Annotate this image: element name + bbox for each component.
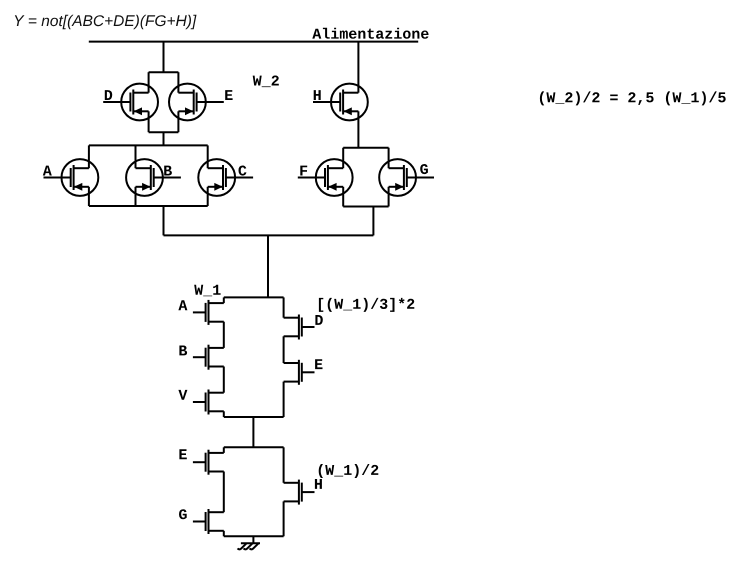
label W_2: [253, 76, 279, 88]
wire rail to H drain: [357, 42, 359, 93]
transistor E (NMOS): [284, 360, 315, 385]
wire rail to DE pair: [163, 42, 165, 73]
wire E2 source vertical: [283, 382, 285, 417]
wire A2-B2 link: [223, 322, 225, 348]
wire H2 source vertical: [283, 501, 285, 536]
wire A drain vertical: [88, 145, 90, 168]
transistor V (NMOS): [193, 390, 224, 415]
wire NMOS group1 bottom: [224, 416, 284, 418]
transistor C (PMOS network): [198, 159, 253, 196]
wire D2-E2 link: [283, 336, 285, 363]
wire DE pair bottom: [149, 131, 179, 133]
label C: [239, 166, 247, 176]
label D: [105, 90, 112, 100]
transistor A (NMOS): [193, 300, 224, 325]
label F: [300, 166, 307, 176]
wire D source vertical: [148, 111, 150, 132]
transistor B (PMOS network): [126, 159, 181, 196]
wire E source vertical: [177, 111, 179, 132]
label B (NMOS): [179, 346, 187, 356]
label B: [164, 166, 172, 176]
transistor D (PMOS network): [103, 84, 158, 121]
ground: [238, 536, 260, 549]
label [(W_1)/3]*2: [319, 298, 414, 312]
transistor H (PMOS network): [313, 84, 368, 121]
wire ABC bottom: [89, 205, 208, 207]
wire FG bottom: [343, 206, 388, 208]
label G: [420, 164, 428, 174]
wire G drain vertical: [388, 148, 390, 169]
transistor G (PMOS network): [379, 159, 434, 196]
transistor G (NMOS bottom): [193, 509, 224, 534]
wire NMOS group1 top: [224, 296, 284, 298]
wire G3 source vertical: [223, 531, 225, 537]
wire DE pair top: [149, 71, 179, 73]
wire D drain vertical: [148, 72, 150, 93]
wire E3-G3 link: [223, 472, 225, 513]
label E: [225, 90, 232, 100]
wire C drain vertical: [207, 145, 209, 168]
label V (NMOS): [178, 390, 187, 400]
wire NMOS group2 bottom: [224, 535, 284, 537]
label (W_1)/2: [319, 464, 379, 478]
transistor B (NMOS): [193, 345, 224, 370]
wire ABC top: [89, 144, 208, 146]
wire H source to FG pair: [357, 111, 359, 147]
label width formula: [540, 91, 726, 105]
wire F drain vertical: [342, 148, 344, 169]
label A (NMOS): [178, 300, 187, 310]
wire ABC bottom to output node: [163, 206, 165, 235]
transistor H (NMOS bottom): [284, 480, 315, 505]
wire E3 drain vertical: [223, 447, 225, 453]
label H (NMOS bottom): [315, 479, 322, 489]
wire A2 drain vertical: [223, 297, 225, 303]
wire NMOS group2 top: [224, 446, 284, 448]
label E (NMOS): [315, 359, 322, 369]
transistor D (NMOS): [284, 315, 315, 340]
transistor F (PMOS network): [298, 159, 353, 196]
wire H2 drain vertical: [283, 447, 285, 483]
label W_1: [194, 285, 220, 297]
wire group1 to group2: [252, 417, 254, 447]
wire FG top: [343, 147, 388, 149]
label D (NMOS): [315, 315, 322, 325]
wire A source vertical: [88, 187, 90, 206]
wire B2-V link: [223, 367, 225, 393]
wire power rail Alimentazione: [89, 41, 418, 43]
transistor E (NMOS bottom): [193, 450, 224, 475]
wire C source vertical: [207, 187, 209, 206]
wire E drain vertical: [177, 72, 179, 93]
transistor E (PMOS network): [169, 84, 224, 121]
wire B source vertical: [135, 187, 137, 206]
transistor A (PMOS network): [44, 159, 99, 196]
wire G source vertical: [388, 187, 390, 207]
label E (NMOS bottom): [179, 449, 186, 459]
title formula: [15, 15, 197, 29]
label G (NMOS bottom): [179, 509, 187, 519]
wire output node horizontal: [164, 234, 374, 236]
wire DE to ABC: [163, 132, 165, 145]
wire output node to NMOS stack: [267, 235, 269, 297]
wire FG bottom to output node: [372, 207, 374, 236]
wire B drain vertical: [135, 145, 137, 168]
label Alimentazione: [312, 28, 428, 39]
label H: [314, 90, 321, 100]
wire D2 drain vertical: [283, 297, 285, 317]
label A: [43, 166, 52, 176]
wire V source vertical: [223, 411, 225, 417]
wire F source vertical: [342, 187, 344, 207]
